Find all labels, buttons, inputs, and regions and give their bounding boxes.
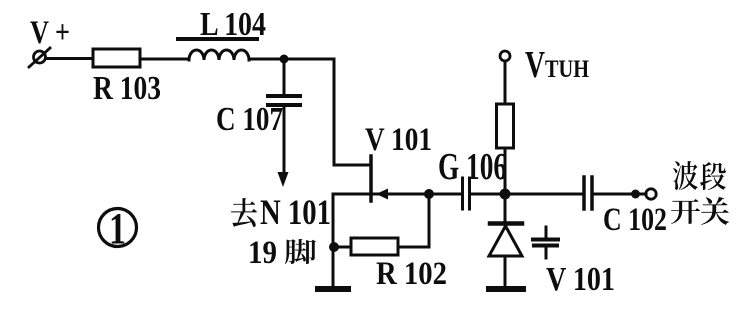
svg-text:C 102: C 102 [603, 202, 667, 238]
svg-text:TUH: TUH [545, 56, 589, 83]
svg-text:N 101: N 101 [260, 192, 331, 232]
svg-text:R 103: R 103 [93, 70, 161, 107]
svg-text:V +: V + [30, 15, 70, 51]
svg-text:L 104: L 104 [200, 6, 266, 43]
svg-text:19: 19 [248, 235, 277, 271]
svg-text:V 101: V 101 [365, 122, 432, 158]
svg-text:G 106: G 106 [438, 146, 507, 188]
svg-text:V: V [525, 44, 545, 86]
svg-text:1: 1 [109, 204, 126, 253]
svg-text:V 101: V 101 [546, 261, 615, 298]
svg-text:C 107: C 107 [216, 101, 283, 138]
svg-text:R 102: R 102 [376, 256, 447, 292]
